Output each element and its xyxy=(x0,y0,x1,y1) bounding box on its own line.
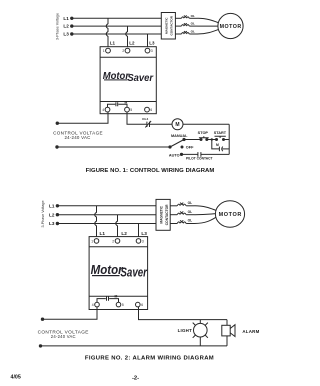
overload heater OL phase 1 (fig1) xyxy=(175,14,197,19)
svg-text:1: 1 xyxy=(103,49,105,53)
separator line top strip (fig1) xyxy=(100,56,156,58)
internal relay contact M between terminals 4 and 5 (fig2) xyxy=(97,295,119,303)
wire L1 tap to terminal 1 (fig2) xyxy=(95,206,97,239)
wire L2 phase line (fig1) xyxy=(72,25,162,27)
wire control voltage to selector common (fig1) xyxy=(57,146,170,148)
motor M1 (fig1) xyxy=(218,13,243,38)
svg-text:6: 6 xyxy=(141,303,143,307)
svg-text:FIGURE NO. 1: CONTROL WIRING D: FIGURE NO. 1: CONTROL WIRING DIAGRAM xyxy=(86,168,215,174)
overload heater OL phase 3 (fig1) xyxy=(175,30,197,35)
wire L2 tap to terminal 2 (fig1) xyxy=(126,26,128,48)
wire STOP to START (fig1) xyxy=(207,139,217,141)
magnetic contactor box (fig2) xyxy=(156,199,170,230)
terminal 5 (fig1) xyxy=(125,107,133,112)
node control voltage bottom dot (fig2) xyxy=(39,344,42,347)
svg-text:3-Phase Voltage: 3-Phase Voltage xyxy=(41,200,45,227)
svg-text:24-240 VAC: 24-240 VAC xyxy=(64,135,90,140)
pilot contact (fig1) xyxy=(186,152,213,160)
wire L3 tap to terminal 3 (fig2) xyxy=(138,224,140,239)
separator line bottom strip (fig2) xyxy=(89,295,148,297)
svg-text:AUTO: AUTO xyxy=(169,154,180,158)
pushbutton STOP NC (fig1) xyxy=(198,131,209,141)
node control voltage bottom dot (fig1) xyxy=(55,145,58,148)
node MANUAL contact (fig1) xyxy=(182,138,185,141)
wire to motor phase 2 (fig2) xyxy=(195,214,217,215)
node L2 dot (fig1) xyxy=(70,24,73,27)
wire OL contact to coil M (fig1) xyxy=(150,123,173,125)
svg-text:2: 2 xyxy=(112,240,114,244)
svg-text:MOTOR: MOTOR xyxy=(219,212,242,218)
svg-text:5: 5 xyxy=(130,108,132,112)
svg-text:M: M xyxy=(175,122,179,128)
node L3 dot (fig2) xyxy=(56,222,59,225)
wire L3 phase line (fig2) xyxy=(57,223,156,225)
wire terminal 4 to control voltage (fig2) xyxy=(43,307,98,319)
terminal 5 (fig2) xyxy=(116,302,124,307)
MotorSaver relay box (fig1) xyxy=(100,47,156,114)
svg-text:L1: L1 xyxy=(110,41,116,46)
svg-text:Saver: Saver xyxy=(120,266,147,280)
svg-text:2: 2 xyxy=(122,49,124,53)
wire to motor phase 3 (fig1) xyxy=(198,29,219,34)
svg-text:L2: L2 xyxy=(49,212,55,217)
wire to motor phase 1 (fig1) xyxy=(198,18,219,23)
svg-text:OL: OL xyxy=(191,14,195,18)
separator line bottom strip (fig1) xyxy=(100,101,156,103)
terminal 6 (fig2) xyxy=(136,302,144,307)
svg-text:OL: OL xyxy=(188,210,193,214)
terminal 4 (fig2) xyxy=(92,302,100,307)
svg-text:M: M xyxy=(125,100,128,104)
svg-text:L1: L1 xyxy=(100,231,106,236)
terminal 3 (fig2) xyxy=(136,239,144,244)
terminal 4 (fig1) xyxy=(102,107,110,112)
wire bottom rail (fig2) xyxy=(41,345,228,347)
svg-text:4/05: 4/05 xyxy=(11,375,21,381)
node L3 dot (fig1) xyxy=(70,32,73,35)
terminal 1 (fig1) xyxy=(103,48,111,53)
svg-text:ALARM: ALARM xyxy=(242,329,259,334)
svg-text:L3: L3 xyxy=(63,32,69,37)
svg-text:-2-: -2- xyxy=(132,376,139,382)
terminal 3 (fig1) xyxy=(145,48,153,53)
svg-text:OL4: OL4 xyxy=(142,117,148,121)
svg-text:L2: L2 xyxy=(63,24,69,29)
wire M auxiliary branch (fig1) xyxy=(212,140,219,149)
node control voltage top dot (fig2) xyxy=(41,318,44,321)
node control voltage top dot (fig1) xyxy=(56,122,59,125)
node OFF contact (fig1) xyxy=(181,146,184,149)
contact M auxiliary NO (fig1) xyxy=(216,143,223,151)
svg-text:FIGURE NO. 2: ALARM WIRING DIA: FIGURE NO. 2: ALARM WIRING DIAGRAM xyxy=(85,356,214,362)
MotorSaver logo (fig1) xyxy=(103,71,154,84)
overload heater OL phase 3 (fig2) xyxy=(170,219,194,224)
svg-text:24-240 VAC: 24-240 VAC xyxy=(51,334,76,339)
svg-text:L2: L2 xyxy=(121,231,127,236)
svg-text:OL: OL xyxy=(191,30,195,34)
svg-text:PILOT CONTACT: PILOT CONTACT xyxy=(186,157,213,161)
figure 2 group xyxy=(38,199,260,361)
svg-text:L3: L3 xyxy=(149,41,155,46)
svg-text:M: M xyxy=(216,143,219,147)
node L2 dot (fig2) xyxy=(56,213,59,216)
svg-text:M: M xyxy=(114,295,117,299)
alarm sounder ALARM (fig2) xyxy=(222,320,260,346)
wire terminal 6 to alarm rail (fig2) xyxy=(139,307,228,320)
coil M motor starter (fig1) xyxy=(172,119,183,130)
separator line top strip (fig2) xyxy=(89,246,148,248)
magnetic contactor box (fig1) xyxy=(161,13,175,40)
wire pilot contact to riser (fig1) xyxy=(201,153,229,155)
svg-text:3-Phase Voltage: 3-Phase Voltage xyxy=(55,13,59,40)
svg-text:MAGNETIC: MAGNETIC xyxy=(159,205,163,223)
MotorSaver logo (fig2) xyxy=(91,263,148,279)
wire L1 phase line (fig1) xyxy=(72,17,162,19)
node L1 dot (fig2) xyxy=(56,204,59,207)
overload heater OL phase 2 (fig1) xyxy=(175,22,197,27)
terminal 2 (fig1) xyxy=(122,48,130,53)
svg-text:LIGHT: LIGHT xyxy=(178,328,192,333)
svg-text:L3: L3 xyxy=(141,231,147,236)
wire L1 phase line (fig2) xyxy=(57,205,156,207)
overload heater OL phase 2 (fig2) xyxy=(170,210,194,215)
svg-text:Saver: Saver xyxy=(127,73,154,84)
svg-text:L3: L3 xyxy=(49,221,55,226)
pushbutton START NO (fig1) xyxy=(214,131,227,141)
wire terminal 4 to control voltage (fig1) xyxy=(57,112,108,123)
selector switch arm to MANUAL (fig1) xyxy=(170,140,184,148)
svg-text:3: 3 xyxy=(142,240,144,244)
terminal 6 (fig1) xyxy=(145,107,153,112)
indicator lamp LIGHT (fig2) xyxy=(178,320,208,346)
wire L3 phase line (fig1) xyxy=(72,33,162,35)
selector switch common node (fig1) xyxy=(168,145,171,148)
svg-text:L1: L1 xyxy=(49,203,55,208)
terminal 2 (fig2) xyxy=(112,239,120,244)
overload NC contact OL (fig1) xyxy=(142,117,151,127)
wire right riser (fig1) xyxy=(228,124,230,154)
svg-text:5: 5 xyxy=(122,303,124,307)
svg-text:CONTACTOR: CONTACTOR xyxy=(170,15,174,35)
svg-text:6: 6 xyxy=(150,108,152,112)
svg-text:MAGNETIC: MAGNETIC xyxy=(165,17,169,34)
node junction M branch (fig1) xyxy=(211,138,213,140)
svg-text:4: 4 xyxy=(102,108,104,112)
MotorSaver relay box (fig2) xyxy=(89,237,148,310)
wire to motor phase 2 (fig1) xyxy=(198,25,219,27)
wire to motor phase 1 (fig2) xyxy=(195,206,217,211)
svg-text:OL: OL xyxy=(188,201,193,205)
svg-text:OL: OL xyxy=(191,22,195,26)
wire L3 tap to terminal 3 (fig1) xyxy=(147,34,149,48)
svg-text:MANUAL: MANUAL xyxy=(171,134,188,138)
svg-text:STOP: STOP xyxy=(198,131,209,135)
wire MANUAL to STOP (fig1) xyxy=(184,139,200,141)
svg-text:CONTACTOR: CONTACTOR xyxy=(165,204,169,225)
wire L2 phase line (fig2) xyxy=(57,214,156,216)
wire to motor phase 3 (fig2) xyxy=(195,217,217,223)
wire L2 tap to terminal 2 (fig2) xyxy=(116,215,118,239)
node L1 dot (fig1) xyxy=(70,17,73,20)
svg-text:L2: L2 xyxy=(129,41,135,46)
motor M2 (fig2) xyxy=(215,201,244,227)
svg-text:OL: OL xyxy=(188,219,193,223)
wire START to riser (fig1) xyxy=(224,139,230,141)
node AUTO contact (fig1) xyxy=(180,153,183,156)
svg-text:1: 1 xyxy=(91,240,93,244)
svg-text:L1: L1 xyxy=(63,16,69,21)
terminal 1 (fig2) xyxy=(91,239,99,244)
svg-text:MOTOR: MOTOR xyxy=(220,24,242,30)
wire terminal 5 to OL contact (fig1) xyxy=(127,112,146,125)
svg-text:3: 3 xyxy=(151,49,153,53)
svg-text:START: START xyxy=(214,131,227,135)
internal relay contact M between terminals 4 and 5 (fig1) xyxy=(108,100,128,107)
figure 1 group xyxy=(53,13,243,174)
wire M contact to riser (fig1) xyxy=(222,148,229,150)
wire L1 tap to terminal 1 (fig1) xyxy=(106,18,108,48)
svg-text:OFF: OFF xyxy=(186,145,194,149)
wire AUTO to pilot contact (fig1) xyxy=(182,153,198,155)
wire coil M to right riser (fig1) xyxy=(183,123,229,125)
overload heater OL phase 1 (fig2) xyxy=(170,201,194,206)
svg-text:4: 4 xyxy=(92,303,94,307)
